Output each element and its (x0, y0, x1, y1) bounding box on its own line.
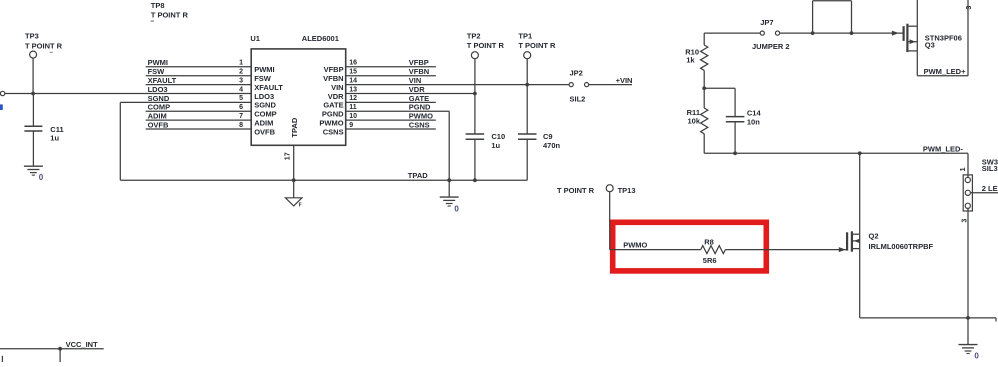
svg-text:ALED6001: ALED6001 (302, 34, 339, 43)
svg-text:JP2: JP2 (570, 68, 583, 77)
svg-text:XFAULT: XFAULT (254, 83, 283, 92)
svg-text:+VIN: +VIN (616, 76, 633, 85)
svg-text:PWM_LED+: PWM_LED+ (924, 67, 967, 76)
svg-text:8: 8 (239, 122, 243, 129)
svg-text:LDO3: LDO3 (254, 92, 274, 101)
jumper JP7 JUMPER 2 (752, 18, 790, 51)
svg-text:11: 11 (349, 104, 357, 111)
svg-text:COMP: COMP (254, 110, 277, 119)
svg-text:10n: 10n (747, 117, 760, 126)
svg-text:1: 1 (960, 167, 967, 171)
svg-text:U1: U1 (250, 34, 260, 43)
svg-text:10k: 10k (687, 117, 700, 126)
svg-text:PWMO: PWMO (623, 241, 647, 250)
wire/pin 9 CSNS (right) (323, 120, 436, 136)
svg-text:6: 6 (239, 104, 243, 111)
svg-text:14: 14 (349, 77, 357, 84)
svg-text:3: 3 (239, 77, 243, 84)
wire/pin 15 VFBN (right) (323, 67, 436, 83)
svg-text:GATE: GATE (323, 101, 343, 110)
net label +VIN (616, 76, 633, 85)
svg-text:T POINT R: T POINT R (557, 186, 595, 195)
op-amp/IC U1 ALED6001 body (250, 34, 345, 146)
blue cropped net-label mark at left edge (0, 104, 3, 110)
svg-text:2 LED-: 2 LED- (982, 184, 998, 193)
wire JP7 left segment + corner (704, 33, 760, 45)
capacitor C10 1u (466, 132, 506, 182)
capacitor C11 1u (24, 94, 63, 167)
wire/pin 14 VIN (right) (331, 76, 569, 92)
svg-text:LDO3: LDO3 (148, 85, 168, 94)
svg-text:FSW: FSW (148, 67, 166, 76)
junction TP3/C11 on LDO3 wire (31, 92, 35, 96)
svg-text:ADIM: ADIM (254, 118, 273, 127)
wire/pin 16 VFBP (right) (324, 58, 436, 74)
svg-text:10: 10 (349, 113, 357, 120)
capacitor C9 470n (518, 132, 561, 180)
wire stub bottom-left corner (1, 356, 3, 362)
test point TP2 (467, 31, 505, 134)
resistor R11 10k (687, 88, 708, 153)
wire/pin 2 FSW (left) (146, 67, 272, 83)
wire/pin 11 PGND (right) (322, 103, 449, 119)
svg-text:2: 2 (239, 69, 243, 76)
svg-text:PWMO: PWMO (319, 118, 343, 127)
svg-text:1u: 1u (491, 141, 500, 150)
svg-text:1: 1 (239, 60, 243, 67)
test point TP8 label (cropped) (151, 1, 189, 22)
svg-text:VDR: VDR (328, 92, 344, 101)
wire Q3 drain/source vertical + PWM_LED+ loop (917, 0, 973, 76)
svg-text:TP13: TP13 (618, 186, 636, 195)
transistor Q3 STN3PF06 (P-MOSFET) (904, 24, 962, 52)
svg-text:T POINT R: T POINT R (25, 42, 63, 51)
svg-text:VIN: VIN (409, 76, 422, 85)
IC U1 pin name TPAD (rotated) (290, 117, 299, 137)
svg-text:15: 15 (349, 69, 357, 76)
ground 0 (bottom right) (959, 318, 980, 361)
wire/pin 6 COMP (left) (146, 103, 277, 119)
svg-text:1k: 1k (686, 56, 695, 65)
pin 17 TPAD stem (285, 145, 296, 198)
svg-text:CSNS: CSNS (323, 127, 344, 136)
test point TP13 (557, 185, 636, 250)
wire SW3 pin2 to right edge (970, 184, 998, 193)
junction R10/R11/C14 (702, 86, 735, 90)
svg-text:TP8: TP8 (151, 1, 165, 10)
svg-text:PWM_LED-: PWM_LED- (923, 144, 964, 153)
wire/pin 1 PWMI (left) (146, 58, 275, 74)
wire/pin 10 PWMO (right) (319, 112, 435, 128)
svg-text:OVFB: OVFB (148, 120, 169, 129)
net label TPAD (408, 171, 428, 180)
svg-text:VIN: VIN (331, 83, 344, 92)
svg-text:GATE: GATE (409, 94, 429, 103)
wire +VIN stub (589, 84, 632, 86)
connector JP2 SIL2 (569, 68, 589, 103)
resistor R10 1k (685, 45, 708, 88)
svg-text:7: 7 (239, 113, 243, 120)
wire SW3 pin3 down (961, 208, 968, 318)
svg-text:C14: C14 (747, 108, 762, 117)
svg-text:4: 4 (239, 86, 243, 93)
svg-text:XFAULT: XFAULT (148, 76, 177, 85)
wire/pin 5 SGND (left) (120, 94, 276, 110)
svg-text:C10: C10 (491, 132, 505, 141)
test point TP1 (518, 31, 556, 134)
wire bottom rail (860, 316, 996, 322)
wire R8 to Q2 gate (725, 247, 847, 252)
red highlight box around PWMO/R8 (613, 222, 767, 271)
svg-text:16: 16 (349, 60, 357, 67)
svg-text:CSNS: CSNS (409, 120, 430, 129)
svg-text:OVFB: OVFB (254, 127, 275, 136)
capacitor C14 10n (726, 88, 762, 155)
connector SW3 SIL3 (963, 157, 998, 211)
resistor R8 5R6 (701, 237, 726, 264)
wire/pin 3 XFAULT (left) (146, 76, 284, 92)
wire rail to SW3 pin1 (960, 153, 968, 177)
svg-text:T POINT R: T POINT R (151, 11, 189, 20)
svg-text:Q3: Q3 (925, 40, 935, 49)
svg-text:0: 0 (39, 173, 44, 182)
svg-text:PWMI: PWMI (254, 65, 274, 74)
wire/pin 4 LDO3 (left) (148, 85, 275, 101)
wire from top (cropped loop) (811, 1, 854, 35)
svg-text:T POINT R: T POINT R (518, 41, 556, 50)
svg-text:TPAD: TPAD (408, 171, 428, 180)
svg-text:VFBN: VFBN (409, 67, 429, 76)
svg-text:SGND: SGND (148, 94, 170, 103)
off-page connector circle (LDO3 net, left edge) (0, 91, 4, 95)
svg-text:TPAD: TPAD (290, 117, 299, 137)
svg-text:13: 13 (349, 86, 357, 93)
wire PWM_LED- rail to Q2 drain (859, 153, 861, 318)
test point TP3 (25, 32, 63, 94)
svg-text:PWMI: PWMI (148, 58, 168, 67)
svg-text:0: 0 (974, 352, 979, 361)
wire/pin 13 VDR (right) (328, 85, 475, 101)
svg-text:VCC_INT: VCC_INT (66, 340, 99, 349)
svg-text:IRLML0060TRPBF: IRLML0060TRPBF (869, 242, 934, 251)
svg-text:5R6: 5R6 (703, 256, 717, 265)
svg-text:SGND: SGND (254, 101, 276, 110)
wire SGND down + ground rail TPAD (120, 102, 527, 180)
svg-text:TP1: TP1 (518, 31, 532, 40)
svg-text:PGND: PGND (409, 103, 431, 112)
svg-text:SIL3: SIL3 (982, 164, 998, 173)
svg-text:T POINT R: T POINT R (467, 41, 505, 50)
svg-text:470n: 470n (543, 141, 561, 150)
svg-text:VFBN: VFBN (323, 74, 343, 83)
svg-text:VFBP: VFBP (409, 58, 429, 67)
junction VDR / TP2 / C10 (473, 92, 477, 96)
svg-text:C9: C9 (543, 132, 553, 141)
svg-text:ADIM: ADIM (148, 112, 167, 121)
power flag triangle (TPAD) (285, 198, 302, 209)
svg-text:PGND: PGND (322, 110, 344, 119)
transistor Q2 IRLML0060TRPBF (N-MOSFET) (847, 231, 933, 251)
svg-text:1u: 1u (50, 133, 59, 142)
wire rail PWM_LED- (704, 144, 968, 155)
svg-text:JP7: JP7 (760, 18, 773, 27)
svg-text:VFBP: VFBP (324, 65, 344, 74)
svg-text:TP3: TP3 (25, 32, 39, 41)
svg-text:SIL2: SIL2 (570, 94, 586, 103)
svg-text:VDR: VDR (409, 85, 425, 94)
wire PWMO to R8 (610, 241, 701, 250)
svg-text:3: 3 (966, 6, 973, 10)
svg-text:17: 17 (285, 152, 292, 160)
svg-text:3: 3 (961, 219, 968, 223)
svg-text:F: F (299, 203, 302, 209)
junction VIN / TP1 / C9 (525, 83, 529, 87)
svg-text:TP2: TP2 (467, 31, 481, 40)
wire/pin 8 OVFB (left) (146, 120, 276, 136)
ground 0 (PGND rail) (440, 180, 460, 213)
svg-text:JUMPER 2: JUMPER 2 (752, 42, 790, 51)
svg-text:R8: R8 (704, 237, 714, 246)
svg-text:Q2: Q2 (869, 232, 879, 241)
svg-text:FSW: FSW (254, 74, 272, 83)
svg-text:12: 12 (349, 95, 357, 102)
svg-text:5: 5 (239, 95, 243, 102)
svg-text:PWMO: PWMO (409, 112, 433, 121)
svg-text:COMP: COMP (148, 103, 171, 112)
wire JP7 to Q3 gate (780, 31, 904, 36)
svg-text:0: 0 (454, 205, 459, 214)
wire/pin 12 GATE (right) (323, 94, 435, 110)
wire VCC_INT (bottom left) (0, 340, 104, 362)
wire PGND down to rail (447, 111, 451, 182)
wire LDO3 from left edge to U1 pin 4 (5, 93, 251, 95)
svg-text:9: 9 (349, 122, 353, 129)
ground 0 (below C11) (24, 166, 44, 182)
wire/pin 7 ADIM (left) (146, 112, 274, 128)
